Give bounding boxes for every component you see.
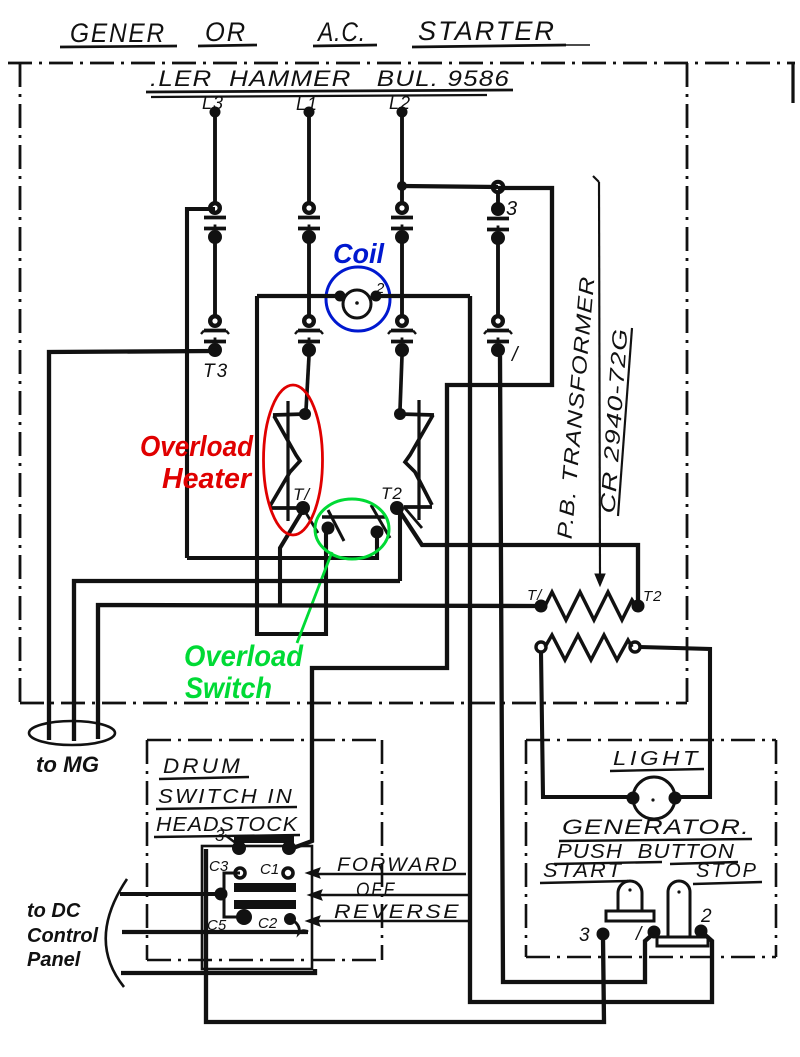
outer border bottom (20, 702, 687, 705)
annotation red ellipse around heater (264, 385, 323, 535)
wire T2 to MG drop (398, 510, 402, 581)
wire T1 to MG/transformer drop (280, 510, 303, 605)
aux upper contact filled dot (493, 204, 504, 215)
svg-text:C1: C1 (260, 861, 279, 878)
terminal C5 (236, 909, 252, 925)
cable arc to DC panel (106, 879, 127, 987)
terminal C2 (284, 913, 296, 925)
overload heater L1 (286, 401, 289, 521)
svg-text:START: START (543, 860, 623, 882)
svg-text:GENER: GENER (70, 18, 166, 48)
junction L2 to aux (397, 181, 407, 191)
wire L3 line side down-left riser (187, 209, 215, 558)
wire L2 pole mid (400, 242, 404, 317)
svg-text:Panel: Panel (27, 949, 81, 971)
terminal push button 2 (695, 925, 708, 938)
contact M pole L1 lower (304, 316, 314, 326)
svg-text:.LER HAMMER BUL. 9586: .LER HAMMER BUL. 9586 (150, 66, 510, 91)
svg-text:Coil: Coil (333, 238, 385, 269)
drum switch top terminal bar (234, 835, 294, 843)
svg-text:T2: T2 (381, 484, 403, 503)
svg-text:GENERATOR.: GENERATOR. (562, 816, 750, 839)
cable sleeve to MG (29, 721, 115, 745)
push button station dash-dot box (526, 739, 776, 742)
terminal push button 3 (597, 928, 610, 941)
junction DC wire 1 (215, 888, 228, 901)
svg-text:T3: T3 (203, 361, 229, 382)
wire coil right to stop button 2 (470, 296, 712, 1002)
contact M pole L3 upper (210, 203, 220, 213)
wire aux to start button 1 (500, 356, 653, 982)
terminal C1 (283, 868, 293, 878)
wire DC panel 1 (120, 892, 221, 896)
drum contact bar lower (234, 900, 296, 909)
wire L3 pole mid (213, 242, 217, 317)
wire L2-aux branch (402, 186, 498, 187)
annotation green leader line (297, 552, 332, 643)
wire DC panel 3 (121, 969, 315, 973)
svg-text:3: 3 (579, 925, 590, 946)
svg-text:L1: L1 (296, 94, 318, 114)
wire T1 net to MG and transformer T1 (lower run) (98, 605, 538, 739)
svg-text:T2: T2 (643, 588, 663, 605)
coil M operating coil (343, 290, 371, 318)
contact M pole L2 upper (397, 203, 407, 213)
svg-text:STOP: STOP (696, 860, 758, 882)
drum contact bar upper (234, 883, 296, 892)
outer border right (686, 63, 689, 703)
contact M aux lower (493, 316, 503, 326)
drum switch enclosure dash-dot box (147, 739, 382, 742)
terminal L1 (304, 107, 315, 118)
svg-text:STARTER: STARTER (418, 16, 556, 46)
svg-text:2: 2 (700, 906, 712, 927)
annotation green ellipse around overload switch (315, 499, 389, 559)
wire T2 net to MG (middle run) (74, 581, 400, 741)
terminal L3 (210, 107, 221, 118)
svg-text:OR: OR (205, 17, 247, 47)
wire coil-left down to overload switch return (257, 296, 326, 634)
wire T3 to MG riser (49, 351, 215, 740)
svg-text:C2: C2 (258, 915, 278, 932)
wire transformer secondary left to light (541, 652, 628, 797)
wire L2 lead (400, 115, 404, 204)
contact M aux upper (493, 204, 503, 214)
wire DC panel 2 to C2 (122, 930, 308, 934)
wire aux pole mid (496, 243, 500, 317)
annotation blue circle around coil (326, 267, 390, 331)
start push button (618, 881, 642, 911)
wire push button 3 to drum (206, 849, 604, 1022)
overload heater L2 (417, 400, 420, 520)
aux pole terminal 3 (493, 182, 503, 192)
leader underline CR label (618, 328, 632, 516)
overload switch contacts (322, 522, 335, 535)
svg-text:HEADSTOCK: HEADSTOCK (156, 814, 299, 836)
svg-text:SWITCH IN: SWITCH IN (158, 786, 294, 808)
pilot light (633, 777, 675, 819)
wire coil right run to stop-button drop (375, 294, 470, 298)
svg-text:A.C.: A.C. (316, 17, 366, 47)
svg-text:to MG: to MG (36, 752, 99, 777)
svg-text:LIGHT: LIGHT (613, 748, 701, 770)
drum switch body box (202, 846, 312, 969)
svg-text:DRUM: DRUM (163, 755, 243, 778)
outer border top (8, 62, 795, 65)
wire C3-C5 link (224, 873, 244, 917)
svg-text:Overload: Overload (140, 431, 254, 463)
transformer secondary winding (545, 635, 632, 660)
wire transformer secondary right to light (640, 647, 710, 797)
wire coil left to box corner (257, 294, 341, 298)
svg-text:L2: L2 (389, 93, 411, 113)
wire heater L2 top lead (400, 356, 402, 410)
svg-text:Switch: Switch (185, 672, 272, 705)
svg-text:Overload: Overload (184, 640, 304, 673)
terminal push button 1 (648, 926, 661, 939)
border scan mark top right (791, 62, 794, 103)
wire aux lead (496, 192, 500, 205)
contact M pole L1 upper (304, 203, 314, 213)
outer border left (19, 63, 22, 703)
terminal C3 (235, 868, 245, 878)
title underline (60, 46, 177, 47)
leader arrow to transformer (599, 182, 600, 578)
svg-text:Control: Control (27, 925, 99, 947)
svg-text:L3: L3 (202, 93, 224, 113)
wire L3 lead (213, 115, 217, 204)
svg-text:OFF: OFF (356, 880, 396, 901)
svg-text:T/: T/ (527, 587, 543, 604)
wire heater L1 top lead (306, 356, 309, 410)
contact M pole L2 lower (397, 316, 407, 326)
svg-text:3: 3 (215, 826, 225, 845)
svg-text:T/: T/ (293, 485, 311, 504)
svg-text:to DC: to DC (27, 900, 81, 922)
stop push button (668, 881, 690, 938)
wire L1 lead (307, 115, 311, 204)
wire overload switch right to L3 line riser (187, 533, 377, 558)
svg-text:Heater: Heater (162, 463, 253, 495)
transformer primary winding T1-T2 (545, 592, 636, 620)
contact M pole L3 lower (210, 316, 220, 326)
wire C2 pigtail (291, 919, 308, 933)
wire T2 to transformer primary (399, 510, 638, 602)
wire L1 pole mid (307, 242, 311, 317)
terminal L2 (397, 107, 408, 118)
wire aux line-side to drum switch (top run) (293, 188, 552, 848)
